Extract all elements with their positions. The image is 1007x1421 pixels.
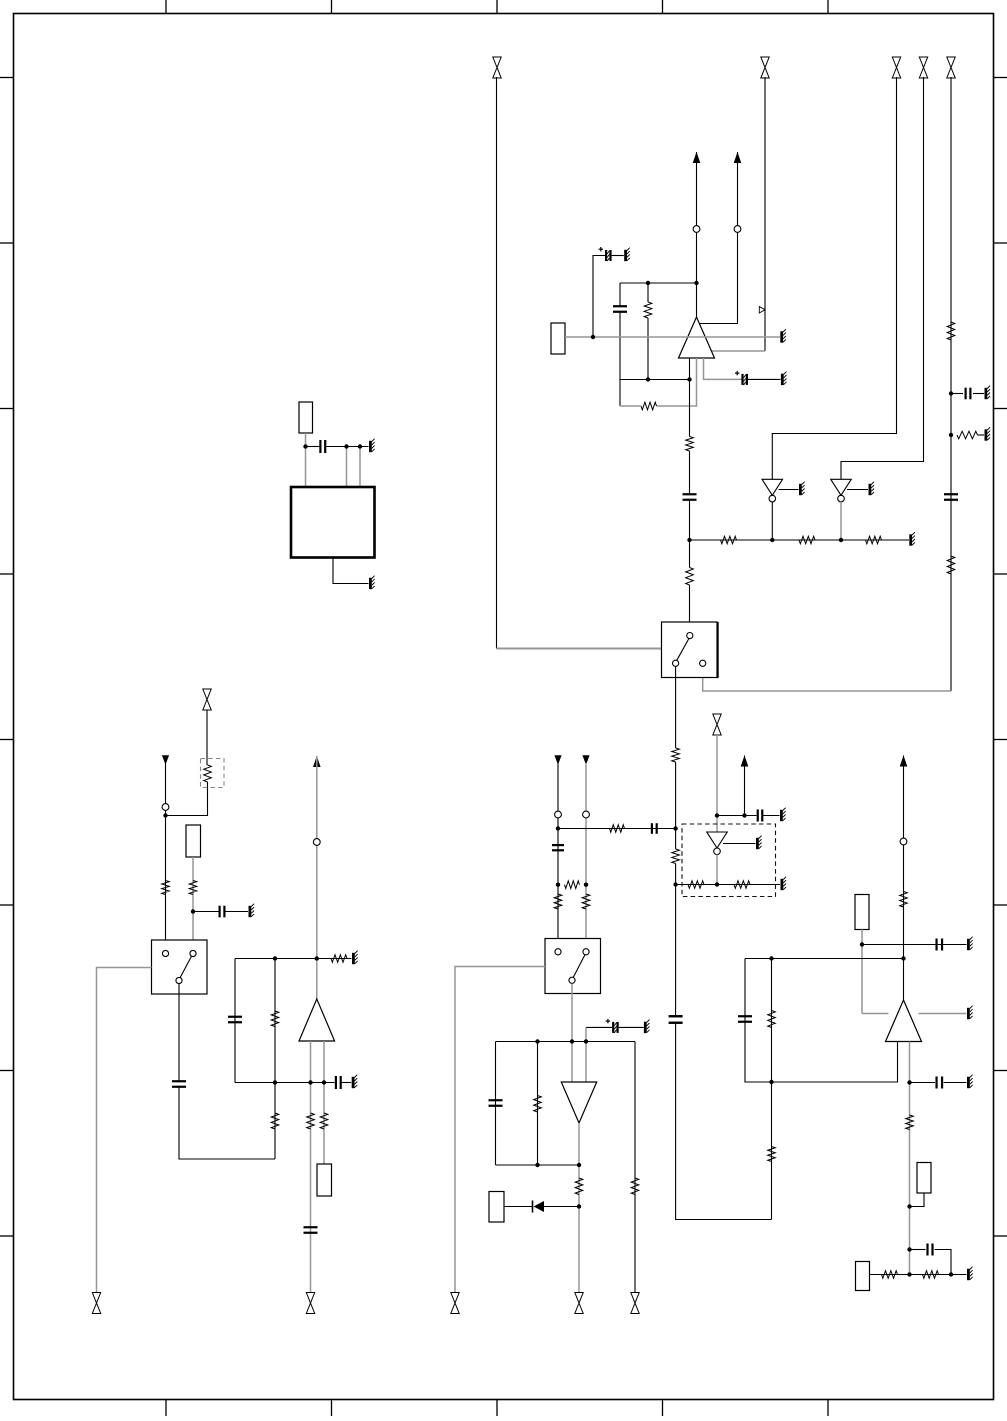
wire xyxy=(764,77,766,351)
wire xyxy=(455,967,545,1293)
switch S3 xyxy=(545,939,601,994)
ground xyxy=(624,248,630,262)
node xyxy=(570,1039,574,1043)
power arrow xyxy=(313,756,321,767)
node xyxy=(273,956,277,960)
resistor R8 xyxy=(721,536,737,544)
wire xyxy=(944,1082,967,1084)
pin xyxy=(693,226,700,233)
resistor R11 xyxy=(672,748,680,762)
wire xyxy=(779,489,799,491)
resistor R14 xyxy=(162,881,170,895)
resistor R10 xyxy=(866,536,882,544)
terminal T8 xyxy=(306,1293,314,1314)
wire xyxy=(305,433,307,487)
component box xyxy=(856,1262,870,1291)
power arrow xyxy=(582,755,589,765)
resistor R12 xyxy=(672,849,680,864)
pin xyxy=(687,633,693,639)
node xyxy=(949,391,953,395)
IC U4 xyxy=(291,487,375,558)
wire xyxy=(557,763,559,950)
ground xyxy=(781,372,787,386)
terminal T9 xyxy=(451,1293,459,1314)
node xyxy=(556,826,560,830)
resistor R31 xyxy=(768,1011,776,1028)
terminal T5 xyxy=(947,57,955,78)
wire xyxy=(586,1026,612,1028)
ground xyxy=(985,427,991,440)
node xyxy=(646,281,650,285)
node xyxy=(591,335,595,339)
resistor R6 xyxy=(686,437,694,452)
pin xyxy=(555,811,562,818)
wire xyxy=(689,585,691,632)
terminal T6 xyxy=(203,689,211,710)
capacitor C4 xyxy=(593,247,624,337)
node xyxy=(535,1039,539,1043)
node xyxy=(322,1080,326,1084)
node xyxy=(769,956,773,960)
wire xyxy=(310,1041,312,1293)
wire xyxy=(676,884,780,886)
marker xyxy=(759,307,765,314)
capacitor C11 xyxy=(228,1017,242,1023)
op-amp U6 xyxy=(561,1082,596,1123)
wire xyxy=(771,959,773,1220)
capacitor C21 xyxy=(937,1077,943,1089)
terminal T10 xyxy=(575,1293,583,1314)
wire xyxy=(316,756,318,999)
wire xyxy=(537,1042,539,1166)
pin xyxy=(569,977,575,983)
wire xyxy=(571,984,573,1082)
resistor R22 xyxy=(582,894,590,909)
resistor R17 xyxy=(271,1011,279,1027)
ground xyxy=(909,532,915,546)
capacitor C1 xyxy=(966,388,971,400)
wire xyxy=(495,1042,497,1166)
pin xyxy=(583,811,590,818)
capacitor C14 xyxy=(552,845,564,850)
wire xyxy=(935,1250,952,1275)
ground xyxy=(967,1267,973,1281)
switch S2 xyxy=(152,940,208,994)
connector J1 xyxy=(299,402,313,433)
resistor R5 xyxy=(641,402,657,410)
wire xyxy=(323,1041,325,1164)
wire xyxy=(745,958,904,960)
wire xyxy=(870,1274,967,1276)
wire xyxy=(689,358,691,437)
power arrow xyxy=(162,755,169,765)
capacitor C3 xyxy=(613,283,627,406)
resistor R15 xyxy=(189,881,197,895)
dashed box xyxy=(201,759,225,788)
switch S1 xyxy=(662,622,718,678)
op-amp U5 xyxy=(299,999,335,1041)
node xyxy=(577,1163,581,1167)
node xyxy=(673,826,677,830)
pin xyxy=(190,950,196,956)
terminal T2 xyxy=(761,57,769,78)
wire xyxy=(703,667,951,692)
ground xyxy=(249,904,255,918)
resistor R27 xyxy=(631,1178,639,1195)
resistor R18 xyxy=(271,1113,279,1129)
inverter U3 xyxy=(831,479,852,502)
node xyxy=(535,1163,539,1167)
ground xyxy=(644,1020,650,1034)
capacitor C5 xyxy=(735,371,781,385)
wire xyxy=(950,77,952,691)
node xyxy=(303,444,307,448)
wire xyxy=(565,336,780,338)
ground xyxy=(985,386,991,399)
wire xyxy=(657,358,697,406)
node xyxy=(687,538,691,542)
wire xyxy=(306,446,321,448)
node xyxy=(715,813,719,817)
pin xyxy=(700,660,706,666)
wire xyxy=(676,1024,772,1220)
component box xyxy=(489,1192,504,1223)
resistor R20 xyxy=(320,1113,328,1129)
capacitor C16 xyxy=(606,1019,644,1033)
wire xyxy=(696,152,698,317)
dashed box xyxy=(682,824,776,897)
terminal T12 xyxy=(713,714,721,735)
wire xyxy=(234,959,236,1083)
capacitor C22 xyxy=(928,1244,933,1256)
pin xyxy=(162,950,168,956)
terminal T11 xyxy=(631,1293,639,1314)
wire xyxy=(206,710,208,765)
resistor R7 xyxy=(686,568,694,586)
resistor R35 xyxy=(923,1271,939,1279)
wire xyxy=(193,911,219,913)
resistor R16 xyxy=(331,955,347,963)
node xyxy=(907,1204,911,1208)
wire xyxy=(496,77,498,649)
wire xyxy=(225,911,248,913)
op-amp U8 xyxy=(886,1000,922,1042)
resistor R26 xyxy=(575,1178,583,1195)
resistor R3 xyxy=(947,556,955,574)
wire xyxy=(359,447,361,488)
inverter U2 xyxy=(762,479,783,502)
ground xyxy=(780,329,786,342)
capacitor C10 xyxy=(172,1081,186,1087)
capacitor C6 xyxy=(683,494,697,500)
wire xyxy=(558,828,676,830)
wire xyxy=(585,1028,587,1083)
resistor R21 xyxy=(554,894,562,909)
node xyxy=(308,1080,312,1084)
node xyxy=(315,956,319,960)
wire xyxy=(910,1249,926,1251)
capacitor C13 xyxy=(304,1227,318,1233)
node xyxy=(907,1272,911,1276)
node xyxy=(673,882,677,886)
wire xyxy=(235,1082,335,1084)
wire xyxy=(840,502,842,540)
wire xyxy=(620,282,697,284)
capacitor C20 xyxy=(738,1016,752,1022)
node xyxy=(694,281,698,285)
wire xyxy=(192,857,194,950)
pin xyxy=(176,977,182,983)
node xyxy=(358,444,362,448)
pin xyxy=(162,804,169,811)
resistor R29 xyxy=(734,881,750,889)
wire xyxy=(711,350,765,352)
ground xyxy=(781,877,787,891)
node xyxy=(907,1247,911,1251)
resistor R24 xyxy=(610,825,625,833)
node xyxy=(770,538,774,542)
wire xyxy=(326,446,369,448)
power arrow xyxy=(693,152,701,163)
resistor R32 xyxy=(768,1147,776,1162)
ground xyxy=(799,482,805,495)
pin xyxy=(734,226,741,233)
diode D1 xyxy=(533,1201,545,1213)
wire xyxy=(723,843,756,845)
wire xyxy=(166,782,208,816)
resistor R4 xyxy=(644,283,652,380)
resistor R34 xyxy=(882,1271,898,1279)
pin xyxy=(900,838,907,845)
wire xyxy=(585,763,587,950)
resistor R1 xyxy=(947,322,955,340)
node xyxy=(907,1080,911,1084)
ground xyxy=(869,482,875,495)
pin xyxy=(673,660,679,666)
wire xyxy=(496,1164,580,1166)
component box xyxy=(317,1164,332,1196)
wire xyxy=(862,1013,889,1015)
wire xyxy=(578,1123,580,1293)
wire xyxy=(341,1082,351,1084)
wire xyxy=(496,1041,636,1043)
capacitor C19 xyxy=(937,939,943,951)
ground xyxy=(967,1075,973,1089)
capacitor C7 xyxy=(669,1016,683,1023)
pin xyxy=(313,839,320,846)
wire xyxy=(716,855,718,885)
node xyxy=(344,444,348,448)
resistor R9 xyxy=(799,536,815,544)
ground xyxy=(352,951,358,965)
power arrow xyxy=(734,152,742,163)
wire xyxy=(179,1087,275,1159)
capacitor C2 xyxy=(944,494,958,500)
wire xyxy=(978,434,985,436)
component box xyxy=(186,825,201,857)
capacitor C8 xyxy=(320,440,325,453)
resistor R28 xyxy=(688,881,704,889)
node xyxy=(646,377,650,381)
wire xyxy=(910,1193,925,1207)
terminal T1 xyxy=(493,57,501,78)
component box xyxy=(917,1163,931,1194)
node xyxy=(556,883,560,887)
pin xyxy=(583,949,589,955)
resistor R33 xyxy=(906,1115,914,1130)
node xyxy=(273,1080,277,1084)
power arrow xyxy=(900,756,908,767)
wire xyxy=(346,447,348,488)
ground xyxy=(967,937,973,951)
wire xyxy=(847,489,868,491)
power arrow xyxy=(741,756,749,767)
component box xyxy=(855,895,869,930)
capacitor C12 xyxy=(336,1076,341,1089)
wire xyxy=(544,1206,579,1208)
node xyxy=(584,883,588,887)
wire xyxy=(504,1206,532,1208)
wire xyxy=(704,358,742,379)
node xyxy=(901,956,905,960)
resistor R25 xyxy=(534,1096,542,1113)
node xyxy=(949,433,953,437)
node xyxy=(839,538,843,542)
wire xyxy=(744,756,746,816)
node xyxy=(577,1204,581,1208)
wire xyxy=(717,815,757,817)
wire xyxy=(716,735,718,832)
resistor R19 xyxy=(307,1113,315,1129)
wire xyxy=(689,500,691,568)
ground xyxy=(756,836,762,850)
wire xyxy=(903,756,905,1001)
wire xyxy=(165,763,167,950)
wire xyxy=(772,77,896,479)
power arrow xyxy=(554,755,561,765)
ground xyxy=(967,1006,973,1020)
wire xyxy=(675,667,677,748)
wire xyxy=(763,815,780,817)
node xyxy=(742,813,746,817)
wire xyxy=(497,648,662,650)
wire xyxy=(333,558,369,584)
node xyxy=(769,1080,773,1084)
wire xyxy=(274,959,276,1160)
wire xyxy=(951,393,963,395)
wire xyxy=(689,451,691,494)
wire xyxy=(675,864,677,1016)
wire xyxy=(97,968,152,1293)
node xyxy=(715,882,719,886)
resistor R13 xyxy=(204,765,212,782)
node xyxy=(191,909,195,913)
wire xyxy=(620,379,690,381)
wire xyxy=(634,1042,636,1293)
capacitor C17 xyxy=(489,1100,503,1106)
wire xyxy=(178,984,180,1081)
op-amp U1 xyxy=(679,317,715,358)
inverter U7 xyxy=(707,832,728,855)
capacitor C18 xyxy=(758,810,763,822)
wire xyxy=(862,944,967,946)
wire xyxy=(841,77,924,479)
wire xyxy=(235,958,352,960)
wire xyxy=(745,959,898,1083)
node xyxy=(860,942,864,946)
capacitor C15 xyxy=(652,823,657,834)
node xyxy=(163,813,167,817)
resistor R2 xyxy=(957,431,978,439)
wire xyxy=(861,930,863,1014)
node xyxy=(687,377,691,381)
ground xyxy=(780,808,786,822)
wire xyxy=(910,1082,936,1084)
wire xyxy=(620,405,641,407)
node xyxy=(584,1039,588,1043)
pin xyxy=(555,949,561,955)
wire xyxy=(700,152,738,324)
wire xyxy=(675,762,677,849)
ground xyxy=(369,576,375,590)
ground xyxy=(352,1075,358,1089)
wire xyxy=(973,393,984,395)
capacitor C9 xyxy=(220,906,225,918)
terminal T7 xyxy=(92,1293,100,1314)
resistor R23 xyxy=(565,881,580,889)
wire xyxy=(909,1042,911,1275)
node xyxy=(949,1272,953,1276)
resistor R30 xyxy=(900,892,908,908)
terminal T3 xyxy=(892,57,900,78)
wire xyxy=(919,1013,967,1015)
wire xyxy=(690,539,910,541)
wire xyxy=(771,502,773,540)
terminal T4 xyxy=(919,57,927,78)
component box xyxy=(551,323,565,354)
ground xyxy=(369,439,375,452)
